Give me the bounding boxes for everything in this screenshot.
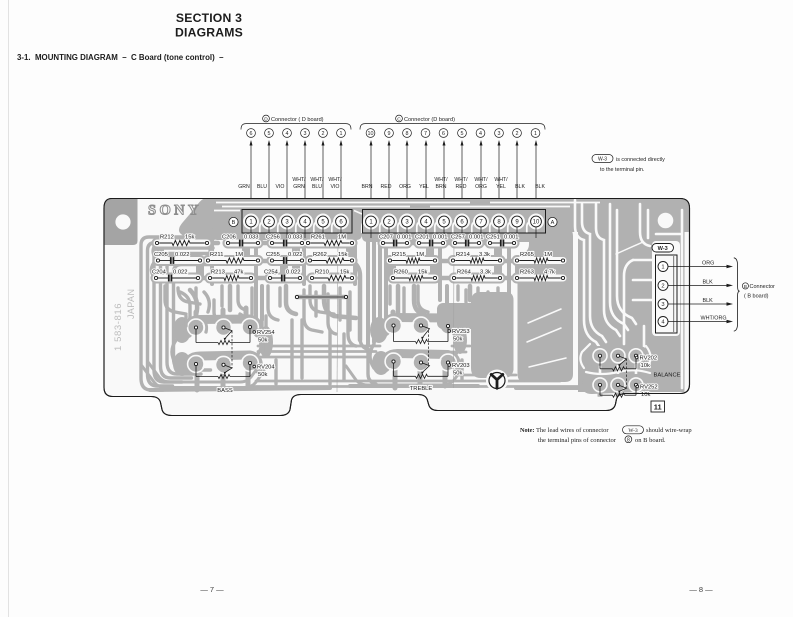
- svg-text:BLU: BLU: [312, 184, 322, 190]
- svg-text:1M: 1M: [235, 252, 243, 258]
- svg-text:BRN: BRN: [436, 184, 447, 190]
- board pin 9 (A side): [512, 216, 523, 227]
- svg-text:8: 8: [627, 438, 630, 444]
- svg-text:C206: C206: [222, 235, 236, 241]
- pin 4 connector D (top): [283, 129, 292, 138]
- pin 5 connector D (top): [265, 129, 274, 138]
- board pin 6 (A side): [457, 216, 468, 227]
- svg-text:47k: 47k: [234, 270, 243, 276]
- wire arrow to connector C: [388, 140, 391, 216]
- board pin 8 (A side): [494, 216, 505, 227]
- svg-text:VIO: VIO: [331, 184, 340, 190]
- wire arrow to connector C: [535, 140, 538, 216]
- svg-text:15k: 15k: [418, 270, 427, 276]
- svg-text:1: 1: [661, 265, 664, 271]
- trimmer RV252 10k: [598, 383, 657, 398]
- copper BALANCE pot blobs: [582, 346, 648, 394]
- svg-text:1: 1: [534, 131, 537, 137]
- board pin 10 (A side): [531, 216, 542, 227]
- trademark keepout: [486, 370, 508, 392]
- note bottom: [520, 427, 692, 444]
- resistor R215 1M: [388, 252, 436, 263]
- svg-text:R262: R262: [313, 252, 327, 258]
- wire arrow to connector C: [461, 140, 464, 216]
- pin keepout rings: [244, 215, 543, 229]
- svg-text:C204: C204: [152, 270, 167, 276]
- board pin 3 (B side): [282, 216, 293, 227]
- bracket connector C: [360, 124, 545, 130]
- svg-text:0.001: 0.001: [397, 235, 412, 241]
- svg-text:WHT/: WHT/: [292, 177, 306, 183]
- PCB board outline: [104, 199, 690, 416]
- svg-text:3: 3: [304, 131, 307, 137]
- svg-text:WHT/: WHT/: [474, 177, 488, 183]
- svg-text:RED: RED: [456, 184, 467, 190]
- svg-text:11: 11: [654, 403, 662, 412]
- svg-text:GRN: GRN: [238, 184, 250, 190]
- board pin 3 (A side): [402, 216, 413, 227]
- svg-text:R260: R260: [394, 270, 408, 276]
- svg-text:Connector (D board): Connector (D board): [404, 117, 455, 123]
- svg-text:4.7k: 4.7k: [544, 270, 555, 276]
- svg-text:3-1. MOUNTING DIAGRAM – C B: 3-1. MOUNTING DIAGRAM – C Board (tone co…: [17, 53, 224, 62]
- brace to B connector: [734, 258, 740, 331]
- svg-text:SONY: SONY: [148, 203, 202, 219]
- wire arrow to connector C: [516, 140, 519, 216]
- svg-text:0.022: 0.022: [175, 252, 190, 258]
- svg-text:7: 7: [424, 131, 427, 137]
- svg-text:YEL: YEL: [496, 184, 506, 190]
- svg-text:RV252: RV252: [640, 385, 658, 391]
- wire arrow to connector D: [268, 140, 271, 216]
- svg-text:1M: 1M: [416, 252, 424, 258]
- balance white channels: [580, 344, 650, 374]
- copper pot stubs: [196, 308, 636, 396]
- svg-text:W-3: W-3: [628, 428, 638, 434]
- copper hooks left-middle: [180, 290, 506, 384]
- capacitor C251 0.001: [486, 235, 519, 247]
- copper top strip: [179, 198, 690, 242]
- wire arrow to connector D: [322, 140, 325, 216]
- svg-text:C: C: [397, 117, 401, 123]
- svg-text:— 8 —: — 8 —: [689, 585, 713, 594]
- resistor R214 3.3k: [451, 252, 501, 263]
- svg-text:0.033: 0.033: [244, 235, 259, 241]
- svg-text:Connector ( D board): Connector ( D board): [271, 117, 324, 123]
- board pin 1 (B side): [246, 216, 257, 227]
- wire arrow to connector C: [480, 140, 483, 216]
- board pin 7 (A side): [476, 216, 487, 227]
- wire arrow to connector C: [370, 140, 373, 216]
- trimmer RV253 50k: [392, 324, 470, 344]
- wire arrow to connector D: [340, 140, 343, 216]
- label connector C board: [396, 115, 456, 123]
- svg-text:BLK: BLK: [535, 184, 545, 190]
- svg-text:10: 10: [368, 131, 374, 137]
- label B: [229, 217, 238, 226]
- board pin 5 (B side): [318, 216, 329, 227]
- capacitor C255 0.022: [266, 252, 304, 264]
- svg-text:ORG: ORG: [399, 184, 411, 190]
- svg-text:C257: C257: [451, 235, 465, 241]
- board pin 2 (A side): [384, 216, 395, 227]
- resistor R261 1M: [306, 235, 353, 246]
- svg-text:0.001: 0.001: [433, 235, 448, 241]
- note W-3 connected directly: [592, 155, 665, 174]
- wire arrow to connector C: [443, 140, 446, 216]
- wire arrow to connector D: [304, 140, 307, 216]
- svg-text:1M: 1M: [544, 252, 552, 258]
- pin 2 connector C (top): [513, 129, 522, 138]
- resistor R263 4.7k: [515, 270, 564, 281]
- trimmer RV202 10k: [598, 354, 657, 371]
- svg-text:0.033: 0.033: [288, 235, 303, 241]
- board pin 2 (B side): [264, 216, 275, 227]
- connector strip box B side: [242, 210, 352, 234]
- svg-text:0.022: 0.022: [173, 270, 188, 276]
- copper SONY patch (left bar): [104, 197, 138, 245]
- label connector D board: [263, 115, 324, 123]
- svg-text:RV202: RV202: [640, 356, 658, 362]
- pin 6 connector C (top): [439, 129, 448, 138]
- svg-text:RV253: RV253: [452, 329, 470, 335]
- svg-text:10k: 10k: [641, 392, 650, 398]
- W-3 pin 2: [658, 280, 668, 290]
- wire arrow to connector D: [250, 140, 253, 216]
- svg-text:B: B: [744, 284, 747, 289]
- board pin 4 (B side): [300, 216, 311, 227]
- mounting hole top-left: [115, 214, 130, 229]
- copper center big block: [518, 228, 574, 382]
- svg-text:6: 6: [442, 131, 445, 137]
- pin 2 connector D (top): [319, 129, 328, 138]
- svg-text:W-3: W-3: [658, 246, 668, 252]
- svg-text:0.022: 0.022: [286, 270, 301, 276]
- pin 7 connector C (top): [421, 129, 430, 138]
- trademark mark: [489, 373, 505, 389]
- jumper wire: [295, 295, 347, 298]
- wire arrow to connector C: [425, 140, 428, 216]
- svg-text:C254: C254: [264, 270, 279, 276]
- svg-text:WHT/: WHT/: [328, 177, 342, 183]
- pin 6 connector D (top): [247, 129, 256, 138]
- connector W-3 label: [652, 244, 674, 253]
- W-3 pin 3: [658, 299, 668, 309]
- svg-text:BLK: BLK: [703, 298, 714, 304]
- capacitor C204 0.022: [152, 270, 200, 282]
- copper pot flank blobs: [173, 317, 467, 376]
- board pin 6 (B side): [336, 216, 347, 227]
- resistor R213 47k: [208, 270, 252, 281]
- copper right panel: [578, 204, 685, 392]
- capacitor C201 0.001: [415, 235, 448, 247]
- pin 3 connector D (top): [301, 129, 310, 138]
- label A: [548, 217, 557, 226]
- svg-text:WHT/: WHT/: [454, 177, 468, 183]
- svg-text:5: 5: [268, 131, 271, 137]
- bracket connector D: [241, 124, 351, 130]
- wire ORG from W-3: [668, 261, 733, 269]
- svg-text:GRN: GRN: [293, 184, 305, 190]
- pin 8 connector C (top): [403, 129, 412, 138]
- svg-text:C201: C201: [415, 235, 429, 241]
- svg-text:YEL: YEL: [419, 184, 429, 190]
- svg-text:BRN: BRN: [362, 184, 373, 190]
- resistor R212 15k: [155, 235, 208, 246]
- W-3 keepout: [652, 241, 680, 336]
- connector strip box A side: [363, 210, 546, 234]
- copper long horizontal buses: [254, 346, 590, 387]
- resistor R210 15k: [310, 270, 353, 281]
- svg-text:50k: 50k: [453, 371, 462, 377]
- svg-text:VIO: VIO: [276, 184, 285, 190]
- svg-text:TREBLE: TREBLE: [410, 386, 433, 392]
- svg-text:C256: C256: [266, 235, 280, 241]
- svg-text:BLU: BLU: [257, 184, 267, 190]
- trimmer RV254 50k: [194, 325, 275, 344]
- copper lower-left wing of block: [471, 292, 514, 378]
- svg-text:WHT/: WHT/: [494, 177, 508, 183]
- pin 10 connector C (top): [366, 129, 375, 138]
- svg-text:BLK: BLK: [703, 280, 714, 286]
- gang dashed link BALANCE: [626, 359, 628, 388]
- wire color labels D group: [238, 177, 342, 190]
- svg-text:0.022: 0.022: [288, 252, 303, 258]
- copper TREBLE pot blobs: [385, 318, 456, 369]
- svg-text:RV204: RV204: [257, 365, 275, 371]
- copper left trace bundle: [141, 237, 213, 390]
- gang dashed link TREBLE: [428, 331, 430, 366]
- svg-text:1 583-816: 1 583-816: [113, 303, 124, 351]
- svg-text:9: 9: [388, 131, 391, 137]
- label B connector (B board): [742, 283, 775, 300]
- resistor R260 15k: [391, 270, 436, 281]
- svg-text:is connected directly: is connected directly: [616, 157, 665, 163]
- pin 9 connector C (top): [385, 129, 394, 138]
- svg-text:C207: C207: [379, 235, 393, 241]
- svg-text:( B board): ( B board): [744, 294, 769, 300]
- svg-text:10k: 10k: [641, 363, 650, 369]
- board pin 4 (A side): [421, 216, 432, 227]
- svg-text:4: 4: [286, 131, 289, 137]
- svg-text:8: 8: [406, 131, 409, 137]
- capacitor C257 0.001: [451, 235, 484, 247]
- W-3 pin 1: [658, 262, 668, 272]
- right panel white channels: [575, 200, 682, 398]
- svg-text:WHT/ORG: WHT/ORG: [701, 316, 727, 322]
- wire BLK from W-3: [668, 280, 733, 288]
- ref box 11: [651, 401, 665, 412]
- svg-text:50k: 50k: [258, 372, 267, 378]
- svg-text:WHT/: WHT/: [434, 177, 448, 183]
- svg-text:5: 5: [461, 131, 464, 137]
- svg-text:3: 3: [498, 131, 501, 137]
- svg-text:R215: R215: [392, 252, 406, 258]
- svg-text:on B board.: on B board.: [635, 437, 666, 444]
- svg-text:R211: R211: [210, 252, 223, 258]
- pin 4 connector C (top): [476, 129, 485, 138]
- svg-text:Connector: Connector: [750, 284, 776, 290]
- resistor R265 1M: [515, 252, 564, 263]
- copper component rails: [156, 243, 563, 278]
- svg-text:R264: R264: [457, 270, 472, 276]
- svg-text:R213: R213: [211, 270, 225, 276]
- copper top strip lower lobes: [212, 226, 568, 242]
- resistor R264 3.3k: [452, 270, 501, 281]
- svg-text:C255: C255: [266, 252, 280, 258]
- svg-text:RV203: RV203: [452, 363, 470, 369]
- svg-text:2: 2: [322, 131, 325, 137]
- capacitor C207 0.001: [379, 235, 412, 247]
- mounting hole top-right: [658, 213, 674, 229]
- capacitor C254 0.022: [264, 270, 302, 282]
- svg-text:BALANCE: BALANCE: [653, 373, 680, 379]
- trimmer RV203 50k: [392, 360, 470, 379]
- svg-text:4: 4: [479, 131, 482, 137]
- capacitor C205 0.022: [154, 252, 202, 264]
- wire arrow to connector C: [498, 140, 501, 216]
- svg-text:W-3: W-3: [598, 157, 607, 163]
- svg-text:15k: 15k: [185, 235, 194, 241]
- copper pot rings: [142, 362, 462, 388]
- svg-text:R210: R210: [315, 270, 329, 276]
- svg-text:2: 2: [516, 131, 519, 137]
- svg-text:— 7 —: — 7 —: [200, 585, 224, 594]
- copper loops: [152, 243, 530, 340]
- svg-text:ORG: ORG: [702, 261, 714, 267]
- svg-text:ORG: ORG: [475, 184, 487, 190]
- svg-text:3: 3: [661, 302, 664, 308]
- crease artifacts: [337, 230, 338, 392]
- svg-text:BLK: BLK: [515, 184, 525, 190]
- copper bridges: [160, 243, 560, 278]
- resistor R211 1M: [206, 252, 259, 263]
- svg-text:50k: 50k: [453, 337, 462, 343]
- svg-text:D: D: [264, 117, 268, 123]
- svg-text:15k: 15k: [338, 252, 347, 258]
- svg-text:B: B: [232, 220, 236, 226]
- wire BLK from W-3: [668, 298, 733, 306]
- svg-text:A: A: [551, 220, 555, 226]
- svg-text:R261: R261: [311, 235, 325, 241]
- svg-text:2: 2: [661, 283, 664, 289]
- svg-text:10: 10: [533, 220, 540, 226]
- svg-text:C251: C251: [486, 235, 500, 241]
- svg-text:DIAGRAMS: DIAGRAMS: [175, 26, 243, 40]
- svg-text:WHT/: WHT/: [310, 177, 324, 183]
- capacitor C206 0.033: [222, 235, 260, 247]
- svg-text:RV254: RV254: [257, 330, 275, 336]
- svg-text:50k: 50k: [258, 338, 267, 344]
- wire arrow to connector C: [406, 140, 409, 216]
- svg-text:1: 1: [340, 131, 343, 137]
- svg-text:0.001: 0.001: [469, 235, 484, 241]
- copper BASS pot blobs: [188, 319, 259, 370]
- board pin 1 (A side): [366, 216, 377, 227]
- svg-text:15k: 15k: [340, 270, 349, 276]
- svg-text:RED: RED: [381, 184, 392, 190]
- svg-text:BASS: BASS: [217, 388, 233, 394]
- board outline restroke: [104, 199, 690, 416]
- board pin 5 (A side): [439, 216, 450, 227]
- white scratches: [527, 166, 722, 367]
- wire arrow to connector D: [286, 140, 289, 216]
- W-3 pin 4: [658, 317, 668, 327]
- copper mid blob: [437, 303, 477, 329]
- copper verticals between rows: [212, 238, 509, 346]
- wire color labels C group: [362, 177, 546, 190]
- svg-text:SECTION 3: SECTION 3: [176, 11, 242, 25]
- svg-text:Note: The lead wires of connec: Note: The lead wires of connector: [520, 427, 609, 434]
- pin stubs into board: [251, 227, 536, 238]
- pin 3 connector C (top): [495, 129, 504, 138]
- svg-text:1M: 1M: [338, 235, 346, 241]
- svg-text:the terminal pins of connector: the terminal pins of connector: [538, 437, 617, 444]
- svg-text:R214: R214: [456, 252, 471, 258]
- svg-text:0.001: 0.001: [504, 235, 519, 241]
- svg-text:R265: R265: [520, 252, 534, 258]
- svg-text:R263: R263: [520, 270, 534, 276]
- gang dashed link BASS: [231, 331, 233, 368]
- svg-text:should wire-wrap: should wire-wrap: [646, 427, 692, 434]
- svg-text:JAPAN: JAPAN: [126, 289, 136, 319]
- component keepout halos: [156, 243, 563, 278]
- svg-text:C205: C205: [154, 252, 168, 258]
- strip routing channels: [214, 203, 600, 234]
- svg-text:to the terminal pin.: to the terminal pin.: [600, 167, 644, 173]
- svg-text:6: 6: [250, 131, 253, 137]
- copper bottom rails: [150, 388, 330, 390]
- svg-text:R212: R212: [160, 235, 174, 241]
- copper mid-band meanders: [165, 286, 500, 384]
- capacitor C256 0.033: [266, 235, 304, 247]
- trimmer RV204 50k: [194, 361, 275, 378]
- pin 5 connector C (top): [458, 129, 467, 138]
- resistor R262 15k: [308, 252, 353, 263]
- pin 1 connector C (top): [531, 129, 540, 138]
- wire WHT/ORG from W-3: [668, 316, 733, 324]
- pin 1 connector D (top): [337, 129, 346, 138]
- connector W-3 body: [656, 255, 678, 333]
- svg-text:3.3k: 3.3k: [480, 270, 491, 276]
- svg-text:3.3k: 3.3k: [479, 252, 490, 258]
